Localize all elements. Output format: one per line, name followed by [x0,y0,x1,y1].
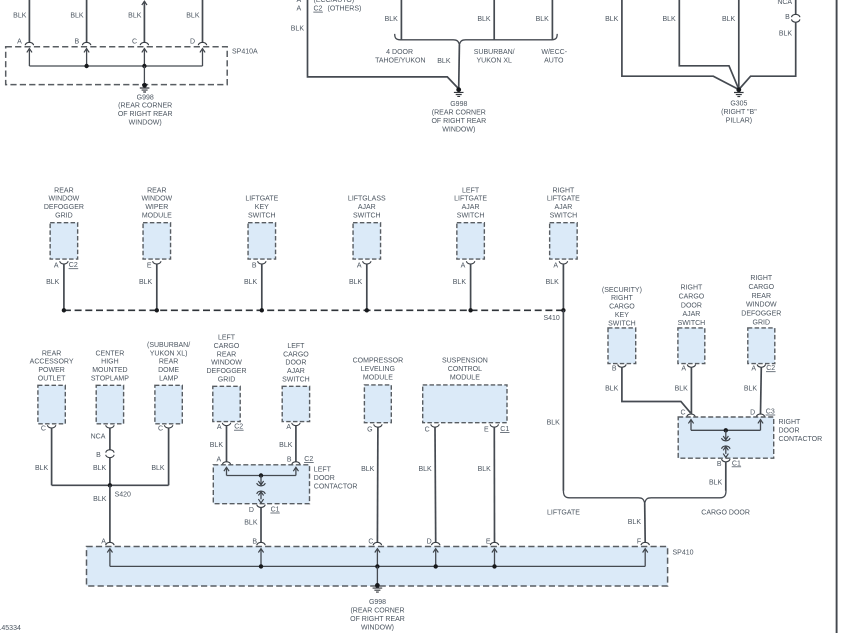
SP410A internal stub D with arrow [200,49,205,53]
svg-text:GRID: GRID [753,320,771,327]
wire BLK from LIFTGLASS AJAR SWITCH to S410 bus [366,264,368,310]
wire BLK 4 to ground G305 [739,22,795,89]
wire BLK to SP410A pin B [86,0,88,42]
svg-text:B: B [252,263,257,270]
wire from SP410 bus to ground G998 bottom [376,566,378,585]
svg-text:SUBURBAN/: SUBURBAN/ [474,49,515,56]
svg-text:OF RIGHT REAR: OF RIGHT REAR [118,111,173,118]
wire BLK from brace to SP410 pin F [644,503,647,542]
svg-text:C: C [41,426,46,433]
svg-text:SWITCH: SWITCH [678,320,706,327]
right contactor internal stub D [758,420,763,424]
connector pin C of right door contactor [687,414,695,417]
svg-text:BLK: BLK [478,466,492,473]
svg-text:A: A [217,424,222,431]
left contactor internal wire [227,475,296,477]
svg-text:BLK: BLK [244,279,258,286]
svg-text:OUTLET: OUTLET [38,376,66,383]
wire BLK to SP410A pin C with up arrow [142,1,147,5]
svg-text:CONTACTOR: CONTACTOR [314,483,358,490]
svg-text:REAR: REAR [147,187,166,194]
svg-text:A: A [357,263,362,270]
svg-text:WIPER: WIPER [145,204,168,211]
SP410 internal stub F [643,549,648,553]
pin of center high mounted stoplamp [106,425,114,428]
svg-text:BLK: BLK [361,466,375,473]
svg-text:DOOR: DOOR [779,428,800,435]
ground G305 [736,87,741,92]
svg-text:F: F [637,539,641,546]
svg-text:D: D [427,539,432,546]
svg-text:(REAR CORNER: (REAR CORNER [432,110,486,117]
svg-text:YUKON XL: YUKON XL [476,57,512,64]
SP410A internal bus wire [29,65,202,67]
svg-text:SP410: SP410 [673,550,694,557]
svg-text:(ECC/AUTO): (ECC/AUTO) [314,0,355,4]
connector pin D of SP410A [198,42,206,45]
component REAR WINDOW WIPER MODULE [143,223,171,259]
wire from stoplamp to inline connector [109,428,111,450]
svg-text:B: B [612,366,617,373]
svg-text:C2: C2 [304,456,313,463]
wire BLK from suspension module pin C to SP410 pin D [434,427,437,542]
SP410 internal stub A [107,549,112,553]
ground G998 (bottom) [375,583,380,588]
svg-text:G998: G998 [137,94,154,101]
svg-text:CARGO: CARGO [214,343,240,350]
brace joining liftgate and cargo door wires [563,491,726,504]
svg-text:LEFT: LEFT [314,467,332,474]
svg-text:KEY: KEY [615,312,629,319]
svg-text:SWITCH: SWITCH [353,213,381,220]
ground G998 (center) [456,87,461,92]
svg-text:YUKON XL): YUKON XL) [150,350,188,357]
svg-text:GRID: GRID [218,377,236,384]
svg-text:KEY: KEY [255,204,269,211]
svg-text:(OTHERS): (OTHERS) [328,6,362,13]
junction at pin C [142,64,146,68]
wire BLK from dome lamp to S420 [168,428,170,485]
wire BLK 3 to ground G305 [738,0,740,90]
svg-text:BLK: BLK [186,12,200,19]
svg-text:BLK: BLK [437,58,451,65]
svg-text:RIGHT: RIGHT [553,187,576,194]
svg-text:LIFTGATE: LIFTGATE [547,510,580,517]
svg-text:D: D [750,409,755,416]
svg-text:BLK: BLK [605,16,619,23]
wire BLK from LEFT LIFTGATE AJAR SWITCH to S410 bus [470,264,472,310]
connector pin A of left door contactor [222,462,230,465]
SP410 internal bus wire [110,565,645,567]
SP410 internal stub E [492,549,497,553]
wire BLK from power outlet to S420 [51,428,53,485]
svg-text:PILLAR): PILLAR) [726,117,752,124]
component LIFTGATE KEY SWITCH [248,223,275,259]
wire from brace to ground G998 center [458,45,461,89]
junction on S410 bus [260,308,264,312]
svg-text:CARGO: CARGO [283,351,309,358]
svg-text:(SUBURBAN/: (SUBURBAN/ [147,342,190,349]
svg-text:BLK: BLK [70,12,84,19]
junction on SP410 internal bus [375,564,379,568]
component COMPRESSOR LEVELING MODULE [364,385,391,423]
svg-text:A: A [461,263,466,270]
junction on S410 bus [365,308,369,312]
svg-text:DEFOGGER: DEFOGGER [44,204,84,211]
svg-text:AUTO: AUTO [544,57,564,64]
component RIGHT DOOR CONTACTOR box [678,417,774,458]
svg-text:145334: 145334 [0,625,21,632]
svg-text:LEFT: LEFT [287,343,305,350]
junction in right contactor [724,428,728,432]
svg-text:A: A [217,456,222,463]
wire BLK from REAR WINDOW WIPER MODULE to S410 bus [156,264,158,310]
svg-text:BLK: BLK [46,279,60,286]
svg-text:BLK: BLK [385,16,399,23]
wire BLK from liftgate connector to ground G998 [308,0,459,89]
svg-text:C2: C2 [69,262,78,269]
svg-text:(REAR CORNER: (REAR CORNER [350,608,404,615]
wire BLK w/ecc-auto variant [551,0,553,40]
component REAR ACCESSORY POWER OUTLET [38,385,65,424]
connector pin C of SP410A [140,42,148,45]
svg-text:DEFOGGER: DEFOGGER [206,368,246,375]
svg-text:G: G [367,427,372,434]
svg-text:D: D [249,507,254,514]
svg-text:BLK: BLK [349,279,363,286]
inline connector on NCA wire [795,0,797,14]
component RIGHT CARGO REAR WINDOW DEFOGGER GRID [748,328,775,364]
component RIGHT CARGO DOOR AJAR SWITCH [678,328,705,364]
svg-text:BLK: BLK [35,465,49,472]
svg-text:C1: C1 [271,507,280,514]
svg-text:POWER: POWER [38,367,64,374]
splice S410 dashed bus wire [64,309,564,311]
svg-text:G305: G305 [730,101,747,108]
svg-text:BLK: BLK [210,442,224,449]
component LEFT CARGO REAR WINDOW DEFOGGER GRID [213,386,240,421]
svg-text:B: B [717,461,722,468]
left contactor internal stub A [224,467,229,471]
inline connector on stoplamp wire [106,450,114,453]
component CENTER HIGH MOUNTED STOPLAMP [96,385,123,424]
wire BLK from S410 to liftgate brace [562,310,564,491]
splice S420 junction [108,483,112,487]
svg-text:DOOR: DOOR [314,475,335,482]
svg-text:BLK: BLK [93,465,107,472]
svg-text:CARGO: CARGO [679,293,705,300]
svg-text:CONTROL: CONTROL [448,366,482,373]
svg-text:E: E [147,263,152,270]
wire BLK 1 to ground G305 [622,0,738,89]
wire BLK from right contactor to cargo door brace [725,462,727,491]
wire BLK from key switch to right door contactor pin C [622,367,691,413]
svg-text:LIFTGATE: LIFTGATE [454,196,487,203]
component SUSPENSION CONTROL MODULE [423,385,507,423]
svg-text:AJAR: AJAR [287,368,305,375]
svg-text:BLK: BLK [675,385,689,392]
svg-text:HIGH: HIGH [101,359,119,366]
svg-text:C: C [132,39,137,46]
splice S420 wire [52,484,169,486]
svg-text:A: A [297,5,302,12]
svg-text:E: E [484,427,489,434]
svg-text:C1: C1 [500,426,509,433]
svg-text:REAR: REAR [217,351,236,358]
svg-text:B: B [287,456,292,463]
svg-text:MODULE: MODULE [450,375,480,382]
svg-text:BLK: BLK [93,496,107,503]
wire BLK to SP410A pin A [28,0,30,42]
page border right [836,0,838,633]
junction on SP410 internal bus [492,564,496,568]
svg-text:LEVELING: LEVELING [361,366,395,373]
svg-text:RIGHT: RIGHT [611,295,634,302]
svg-text:AJAR: AJAR [462,204,480,211]
component (SECURITY) RIGHT CARGO KEY SWITCH [608,328,636,364]
svg-text:LEFT: LEFT [218,335,236,342]
svg-text:REAR: REAR [54,187,73,194]
wire BLK from inline connector to S420 [109,458,111,486]
svg-text:WINDOW): WINDOW) [442,126,475,133]
junction at pin B [84,64,88,68]
svg-text:B: B [785,14,790,21]
svg-text:AJAR: AJAR [554,204,572,211]
svg-text:(RIGHT "B": (RIGHT "B" [721,109,757,116]
svg-text:WINDOW: WINDOW [49,196,80,203]
svg-text:LIFTGATE: LIFTGATE [547,196,580,203]
svg-text:DOME: DOME [158,367,179,374]
wire BLK from left contactor to SP410 pin B [260,508,262,543]
svg-text:BLK: BLK [709,479,723,486]
svg-text:LIFTGLASS: LIFTGLASS [348,196,386,203]
svg-text:C3: C3 [766,409,775,416]
component LEFT DOOR CONTACTOR box [213,465,309,504]
svg-text:BLK: BLK [722,16,736,23]
svg-text:SWITCH: SWITCH [282,377,310,384]
svg-text:CARGO: CARGO [609,304,635,311]
svg-text:BLK: BLK [744,385,758,392]
svg-text:NCA: NCA [777,0,792,6]
svg-text:OF RIGHT REAR: OF RIGHT REAR [431,118,486,125]
svg-text:SP410A: SP410A [232,48,258,55]
connector pin B of left door contactor [292,462,300,465]
svg-text:BLK: BLK [244,520,258,527]
wire BLK from compressor module to SP410 pin C [376,427,379,542]
svg-text:A: A [751,366,756,373]
brace joining variant wires [395,34,558,45]
connector pin D of right door contactor [756,414,764,417]
wire BLK from suspension module pin E to SP410 pin E [493,427,495,542]
svg-text:B: B [75,39,80,46]
connector pin B of right door contactor [722,459,730,462]
svg-text:CENTER: CENTER [96,350,125,357]
svg-text:BLK: BLK [453,279,467,286]
svg-text:DEFOGGER: DEFOGGER [741,311,781,318]
wire BLK from defogger grid to right door contactor pin D [760,367,763,414]
svg-text:A: A [297,0,302,4]
SP410A internal stub C with arrow [142,49,147,53]
svg-text:BLK: BLK [418,466,432,473]
junction in left contactor [259,473,263,477]
svg-text:BLK: BLK [477,16,491,23]
svg-text:STOPLAMP: STOPLAMP [91,376,129,383]
connector pin B of SP410A [82,42,90,45]
SP410 internal stub C [375,549,380,553]
svg-text:W/ECC-: W/ECC- [541,49,567,56]
svg-text:BLK: BLK [536,16,550,23]
svg-text:BLK: BLK [605,385,619,392]
svg-text:REAR: REAR [752,293,771,300]
wire from SP410A bus to ground G998 [143,66,145,85]
svg-text:WINDOW): WINDOW) [129,120,162,127]
svg-text:DOOR: DOOR [681,302,702,309]
svg-text:4 DOOR: 4 DOOR [386,49,413,56]
wire BLK to SP410A pin D [202,0,204,42]
wire BLK from S420 to SP410 pin A [109,485,111,542]
svg-text:BLK: BLK [279,442,293,449]
svg-text:BLK: BLK [779,30,793,37]
svg-text:C: C [425,427,430,434]
svg-text:CONTACTOR: CONTACTOR [779,436,823,443]
svg-text:C2: C2 [766,365,775,372]
svg-text:COMPRESSOR: COMPRESSOR [353,358,404,365]
connector pin D of left door contactor [257,505,265,508]
right contactor internal wire [691,429,761,431]
svg-text:BLK: BLK [128,12,142,19]
svg-text:D: D [190,39,195,46]
svg-text:REAR: REAR [42,350,61,357]
wire BLK from RIGHT LIFTGATE AJAR SWITCH to S410 bus [562,264,564,310]
svg-text:DOOR: DOOR [285,360,306,367]
wire BLK from REAR WINDOW DEFOGGER GRID to S410 bus [63,264,65,310]
svg-text:TAHOE/YUKON: TAHOE/YUKON [375,57,425,64]
svg-text:C: C [368,539,373,546]
connector pin A of SP410A [25,42,33,45]
svg-text:ACCESSORY: ACCESSORY [30,359,74,366]
component (SUBURBAN/YUKON XL) REAR DOME LAMP [155,385,182,424]
svg-text:WINDOW: WINDOW [141,196,172,203]
SP410 internal stub B [258,549,263,553]
SP410 internal stub D [433,549,438,553]
svg-text:WINDOW: WINDOW [211,360,242,367]
svg-text:BLK: BLK [291,25,305,32]
svg-text:MODULE: MODULE [142,213,172,220]
component LIFTGLASS AJAR SWITCH [353,223,381,259]
component LEFT LIFTGATE AJAR SWITCH [457,223,485,259]
svg-text:SWITCH: SWITCH [608,320,636,327]
svg-text:LAMP: LAMP [159,376,178,383]
splice pack SP410A box [6,47,228,85]
svg-text:C1: C1 [732,460,741,467]
splice pack SP410 box [87,547,668,587]
svg-text:A: A [17,39,22,46]
svg-text:BLK: BLK [662,16,676,23]
svg-text:A: A [681,366,686,373]
svg-text:A: A [553,263,558,270]
svg-text:A: A [286,424,291,431]
svg-text:GRID: GRID [55,213,73,220]
svg-text:MODULE: MODULE [363,375,393,382]
svg-text:SUSPENSION: SUSPENSION [442,358,488,365]
svg-text:C2: C2 [314,6,323,13]
left contactor internal connector [260,476,262,485]
svg-text:BLK: BLK [628,519,642,526]
junction on S410 bus [468,308,472,312]
svg-text:C: C [680,409,685,416]
svg-text:RIGHT: RIGHT [681,285,704,292]
svg-text:A: A [54,263,59,270]
svg-text:SWITCH: SWITCH [550,213,578,220]
svg-text:CARGO: CARGO [748,284,774,291]
svg-text:(REAR CORNER: (REAR CORNER [118,103,172,110]
junction on SP410 internal bus [259,564,263,568]
svg-text:BLK: BLK [546,279,560,286]
component RIGHT LIFTGATE AJAR SWITCH [550,223,578,259]
svg-text:LIFTGATE: LIFTGATE [245,196,278,203]
svg-text:G998: G998 [450,101,467,108]
junction on S410 bus [155,308,159,312]
svg-text:NCA: NCA [91,434,106,441]
svg-text:S410: S410 [543,315,559,322]
wire BLK from left cargo defogger to left door contactor pin A [226,426,228,462]
junction on S410 bus [561,308,565,312]
SP410A internal stub B with arrow [84,49,89,53]
component LEFT CARGO DOOR AJAR SWITCH [282,386,309,421]
svg-text:WINDOW): WINDOW) [361,624,394,631]
wire BLK 4-door tahoe/yukon variant [400,0,402,40]
svg-text:B: B [96,452,101,459]
svg-text:BLK: BLK [139,279,153,286]
svg-text:WINDOW: WINDOW [746,302,777,309]
svg-text:CARGO DOOR: CARGO DOOR [701,510,750,517]
svg-text:RIGHT: RIGHT [779,419,802,426]
svg-text:AJAR: AJAR [682,311,700,318]
SP410A internal stub A with arrow [27,49,32,53]
junction on S410 bus [62,308,66,312]
svg-text:SWITCH: SWITCH [248,213,276,220]
junction on SP410 internal bus [434,564,438,568]
svg-text:(SECURITY): (SECURITY) [602,287,642,294]
svg-text:REAR: REAR [159,359,178,366]
svg-text:C: C [158,426,163,433]
svg-text:SWITCH: SWITCH [457,213,485,220]
right contactor internal connector [725,430,727,440]
svg-text:S420: S420 [115,492,131,499]
svg-text:OF RIGHT REAR: OF RIGHT REAR [350,616,405,623]
wire BLK from LIFTGATE KEY SWITCH to S410 bus [261,264,263,310]
svg-text:BLK: BLK [13,12,27,19]
wire BLK from ajar switch to right door contactor pin C [690,367,692,414]
wire BLK suburban/yukon xl variant [493,0,495,40]
svg-text:LEFT: LEFT [462,187,480,194]
svg-text:AJAR: AJAR [358,204,376,211]
svg-text:RIGHT: RIGHT [750,275,773,282]
wire BLK 2 to ground G305 [679,0,738,89]
left contactor internal stub B [293,467,298,471]
svg-text:G998: G998 [369,599,386,606]
svg-text:BLK: BLK [151,465,165,472]
component REAR WINDOW DEFOGGER GRID [50,223,78,259]
svg-text:BLK: BLK [547,419,561,426]
ground G998 (left) [142,83,147,88]
svg-text:MOUNTED: MOUNTED [92,367,127,374]
right contactor internal stub C [688,420,693,424]
svg-text:C2: C2 [234,424,243,431]
wire BLK from left ajar switch to left door contactor pin B [295,426,297,462]
